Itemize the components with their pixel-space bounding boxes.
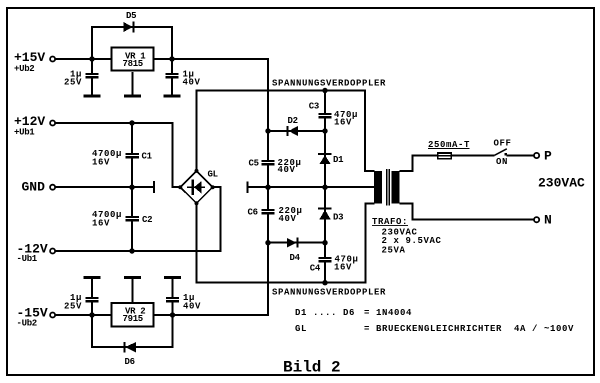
svg-text:D4: D4	[290, 253, 301, 263]
wire C1 stem top	[131, 123, 133, 153]
wire -15V line right (VR2 to doubler rail corner)	[155, 314, 270, 316]
svg-text:P: P	[544, 149, 552, 164]
diode D1	[318, 154, 344, 165]
ground VR1	[124, 94, 141, 97]
svg-text:OFF: OFF	[494, 139, 512, 149]
diode D6	[124, 342, 136, 367]
wire secondary bottom	[365, 203, 374, 283]
wire cap 1u40V stem	[171, 59, 173, 95]
terminal GND	[22, 180, 56, 195]
svg-text:ON: ON	[496, 157, 508, 167]
capacitor 1u 40V (bottom)	[165, 293, 201, 312]
ground cap 1u40V	[164, 94, 181, 97]
regulator VR2 7915	[111, 303, 153, 326]
terminal +15V	[14, 50, 55, 74]
svg-text:D2: D2	[288, 116, 298, 126]
svg-text:+Ub2: +Ub2	[14, 64, 34, 74]
ground VR2	[124, 276, 141, 279]
terminal -12V	[17, 242, 56, 265]
svg-text:40V: 40V	[279, 214, 297, 224]
capacitor 1u 25V (bottom)	[64, 293, 100, 312]
svg-text:7815: 7815	[123, 59, 143, 69]
svg-text:25V: 25V	[64, 78, 82, 88]
fuse 250mA-T	[428, 140, 470, 160]
svg-text:40V: 40V	[278, 165, 296, 175]
wire primary bottom / N line	[400, 203, 534, 219]
svg-text:40V: 40V	[183, 302, 201, 312]
svg-text:16V: 16V	[92, 219, 110, 229]
diode D4	[287, 238, 301, 263]
wire secondary top	[365, 90, 375, 172]
svg-text:230VAC: 230VAC	[538, 176, 585, 191]
node junction center/mid-rail	[265, 185, 270, 190]
wire +12V line	[55, 123, 181, 187]
node junction C3 top	[322, 88, 327, 93]
wire C1 stem bottom	[131, 159, 133, 189]
wire -12V line	[55, 250, 221, 252]
node junction D2 left	[265, 128, 270, 133]
svg-text:16V: 16V	[92, 158, 110, 168]
capacitor C6 220u 40V	[248, 206, 303, 224]
svg-text:40V: 40V	[183, 78, 201, 88]
svg-text:SPANNUNGSVERDOPPLER: SPANNUNGSVERDOPPLER	[272, 79, 386, 89]
svg-text:SPANNUNGSVERDOPPLER: SPANNUNGSVERDOPPLER	[272, 288, 386, 298]
wire cap 1u25V stem	[91, 59, 93, 95]
node junction -12V/C2	[129, 248, 134, 253]
diode D2	[287, 116, 298, 136]
wire top AC rail	[196, 90, 367, 92]
svg-text:C2: C2	[142, 215, 152, 225]
capacitor C4 470u 16V	[310, 255, 359, 274]
svg-text:N: N	[544, 213, 552, 228]
svg-text:D6: D6	[125, 357, 135, 367]
svg-text:= 1N4004: = 1N4004	[364, 308, 412, 318]
node junction D2 right	[322, 128, 327, 133]
wire fuse to switch	[451, 155, 494, 157]
wire D5 top loop	[92, 27, 172, 59]
svg-text:C6: C6	[248, 208, 258, 218]
capacitor 1u 25V (top)	[64, 70, 100, 88]
wire doubler mid rail	[267, 58, 269, 316]
svg-text:25V: 25V	[64, 302, 82, 312]
wire center tap line	[248, 186, 374, 188]
capacitor C5 220u 40V	[249, 158, 302, 175]
wire D6 loop	[92, 315, 173, 347]
wire -15V line left	[55, 314, 110, 316]
wire primary top	[400, 156, 438, 172]
capacitor 1u 40V (top)	[165, 70, 201, 88]
svg-text:-Ub2: -Ub2	[17, 319, 37, 329]
wire +15V line right (VR1 output to doubler rail corner)	[155, 58, 270, 60]
transformer TRAFO	[374, 169, 400, 206]
svg-text:25VA: 25VA	[382, 246, 406, 256]
wire +15V line left	[55, 58, 110, 60]
svg-text:GL: GL	[295, 324, 307, 334]
text TRAFO data	[372, 217, 442, 256]
ground cap 1u25V	[84, 94, 101, 97]
svg-text:2 x 9.5VAC: 2 x 9.5VAC	[382, 236, 442, 246]
node junction C4 bottom	[322, 280, 327, 285]
op-amp U1 / regulator VR1 7815	[111, 47, 153, 70]
switch S1	[494, 139, 534, 168]
diode D5	[124, 11, 137, 33]
wire cap 1u25V bottom stem	[91, 279, 93, 315]
wire cap 1u40V bottom stem	[172, 279, 174, 315]
svg-text:= BRUECKENGLEICHRICHTER 4A /: = BRUECKENGLEICHRICHTER 4A / ~100V	[364, 324, 574, 334]
wire VR2 ground stem	[131, 279, 133, 302]
diode D3	[318, 209, 343, 223]
wire GL bottom to AC rail	[196, 203, 198, 283]
capacitor C1 4700u 16V	[92, 149, 153, 168]
node junction +15V/D5 left	[89, 56, 94, 61]
svg-text:D1 .... D6: D1 .... D6	[295, 308, 355, 318]
wire D4 line	[268, 242, 325, 244]
svg-text:16V: 16V	[334, 263, 352, 273]
wire doubler right rail	[324, 91, 326, 283]
node junction D1/D3 center	[322, 185, 327, 190]
terminal -15V	[17, 306, 56, 329]
svg-text:Bild 2: Bild 2	[283, 359, 341, 377]
terminal N	[534, 213, 552, 228]
svg-text:TRAFO:: TRAFO:	[372, 217, 408, 227]
wire VR1 ground stem	[131, 72, 133, 95]
node GND terminator bar	[153, 181, 155, 193]
svg-text:C3: C3	[309, 102, 319, 112]
svg-text:C5: C5	[249, 159, 259, 169]
terminal +12V	[14, 114, 55, 138]
capacitor C3 470u 16V	[309, 102, 358, 128]
svg-text:7915: 7915	[123, 314, 143, 324]
node junction D4 left	[265, 240, 270, 245]
node junction +12V/C1	[129, 120, 134, 125]
wire C2 stem bottom	[131, 222, 133, 253]
terminal P	[534, 149, 552, 164]
svg-text:C1: C1	[142, 152, 153, 162]
wire GND line	[55, 186, 152, 188]
node junction -15V/D6 right	[170, 312, 175, 317]
ground cap 1u25V bottom	[84, 276, 101, 279]
ground cap 1u40V bottom	[164, 276, 181, 279]
node center tap terminator bar	[246, 181, 248, 193]
svg-text:C4: C4	[310, 264, 321, 274]
wire bottom AC rail	[196, 282, 367, 284]
svg-text:D3: D3	[333, 213, 343, 223]
wire D2 line	[268, 130, 325, 132]
svg-text:D5: D5	[126, 11, 136, 21]
wire C2 stem top	[131, 186, 133, 216]
node junction +15V/D5 right	[169, 56, 174, 61]
node junction -15V/D6 left	[89, 312, 94, 317]
wire GL top to AC rail	[196, 91, 198, 172]
svg-text:-Ub1: -Ub1	[17, 254, 38, 264]
bridge rectifier GL	[178, 169, 217, 205]
svg-text:16V: 16V	[334, 118, 352, 128]
node junction D4 right	[322, 240, 327, 245]
svg-text:GL: GL	[208, 170, 218, 180]
svg-text:D1: D1	[333, 155, 344, 165]
svg-text:+Ub1: +Ub1	[14, 128, 35, 138]
capacitor C2 4700u 16V	[92, 210, 152, 229]
svg-text:+15V: +15V	[14, 50, 45, 65]
node junction GND/C1C2	[129, 185, 134, 190]
wire GL right to -12V	[213, 187, 221, 252]
svg-text:GND: GND	[22, 180, 46, 195]
